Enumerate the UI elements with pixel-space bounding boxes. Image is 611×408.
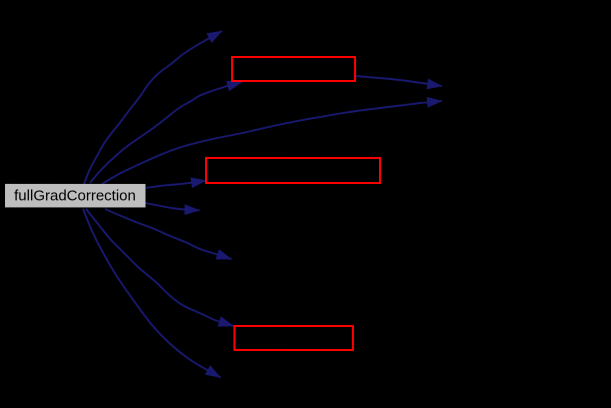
svg-text:fullGradCorrection: fullGradCorrection — [14, 187, 136, 204]
